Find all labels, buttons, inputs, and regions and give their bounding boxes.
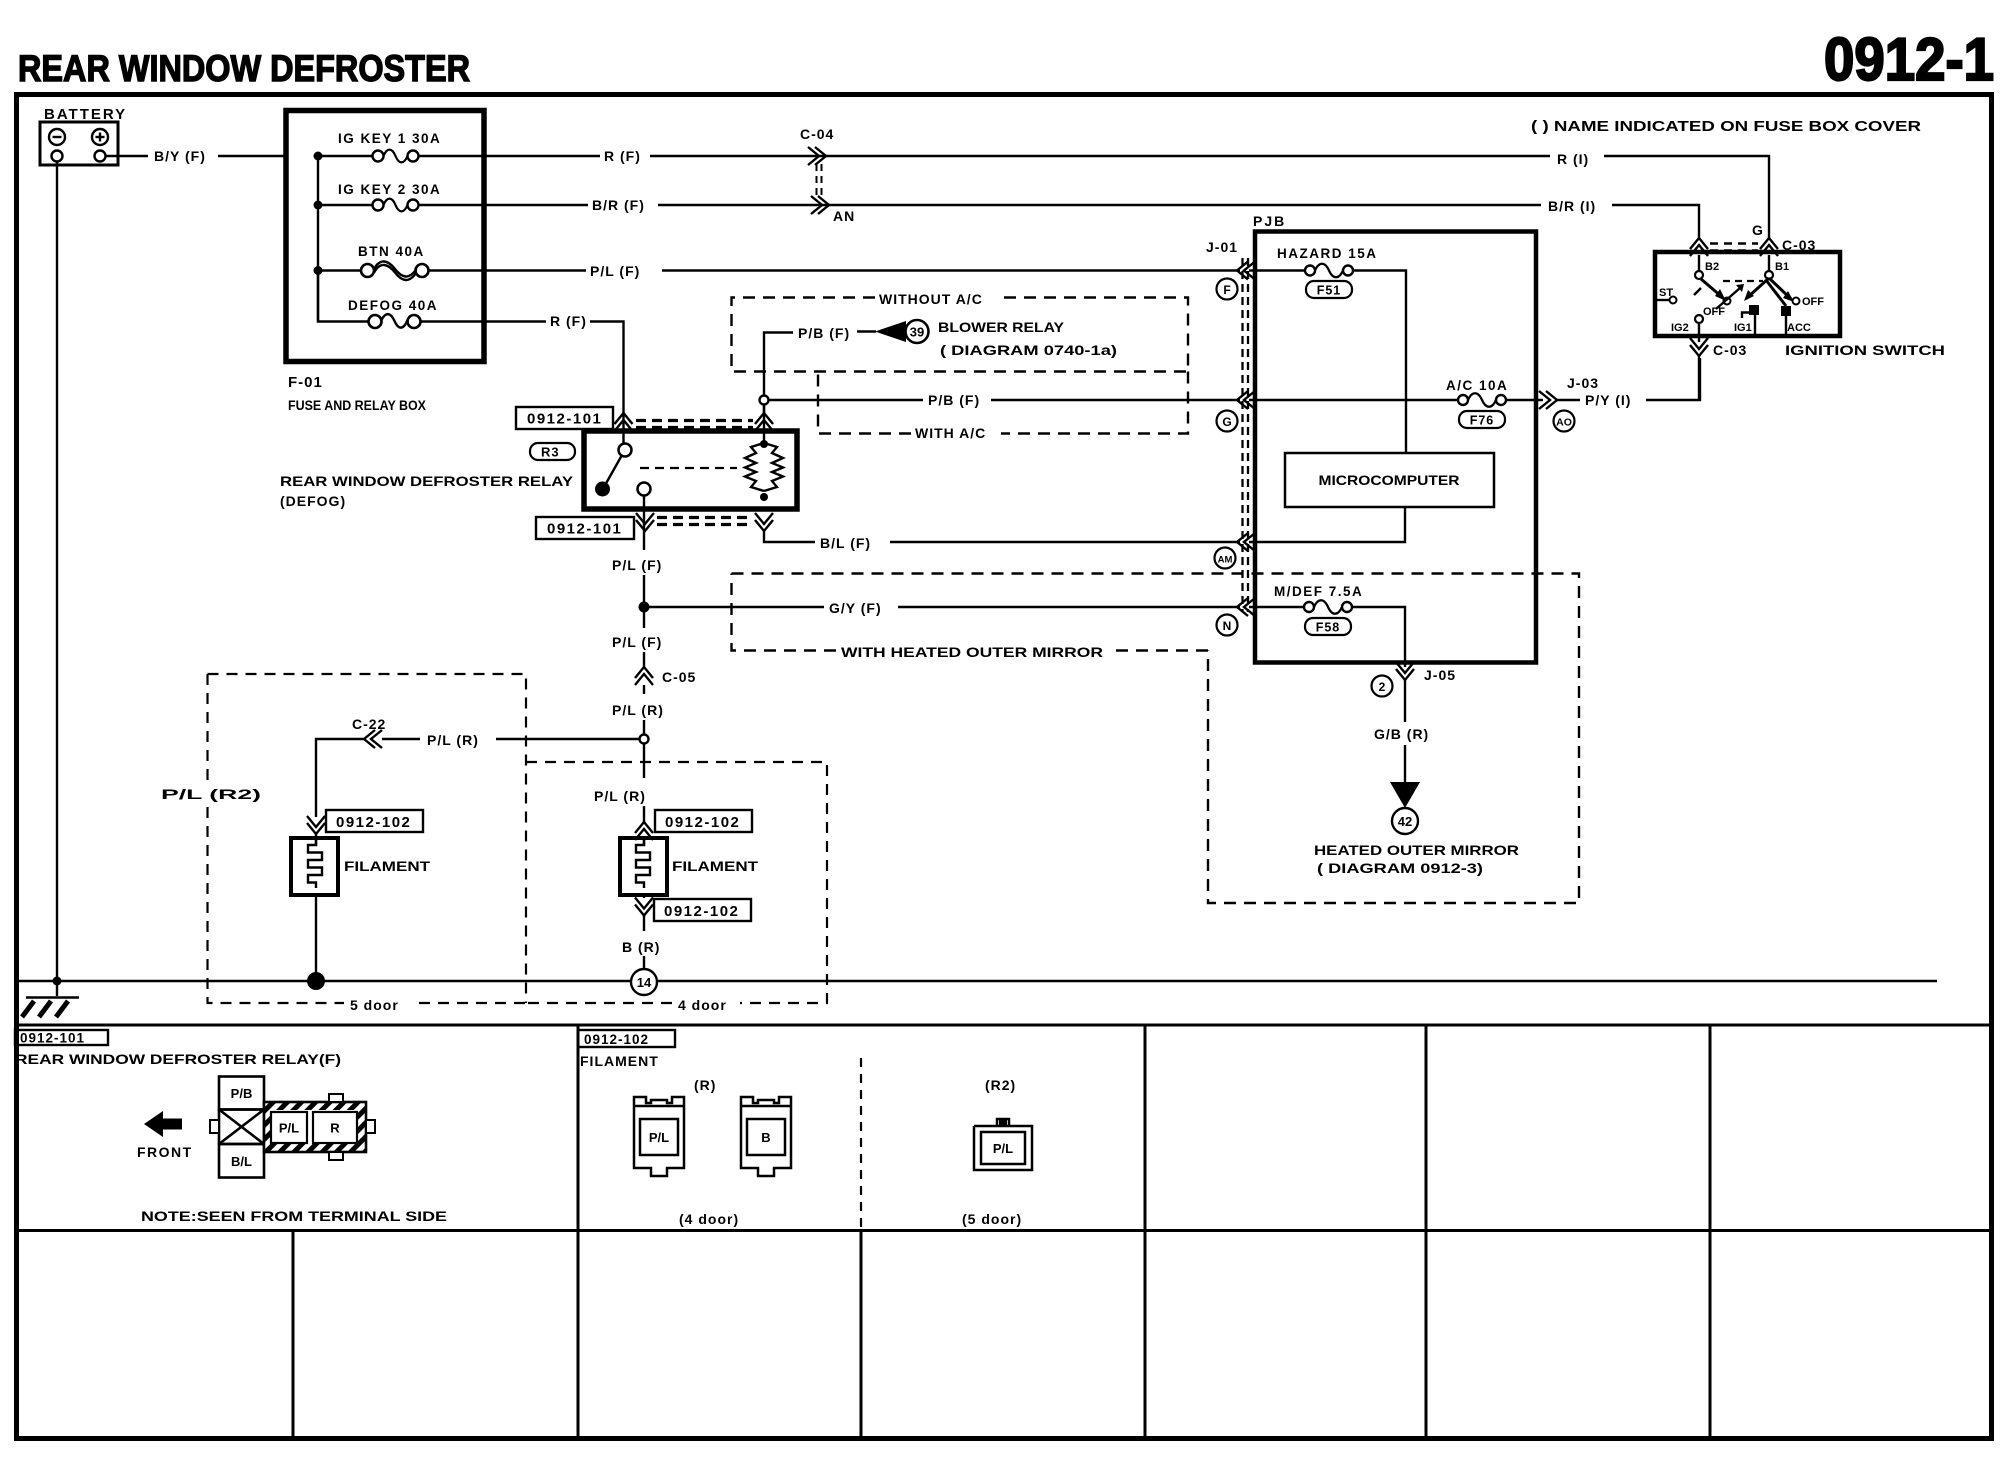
svg-text:NOTE:SEEN FROM TERMINAL SIDE: NOTE:SEEN FROM TERMINAL SIDE	[141, 1208, 447, 1224]
svg-text:P/L (F): P/L (F)	[612, 557, 662, 573]
svg-text:P/Y (I): P/Y (I)	[1585, 392, 1631, 408]
svg-text:FUSE AND RELAY BOX: FUSE AND RELAY BOX	[288, 397, 427, 413]
svg-text:FRONT: FRONT	[137, 1144, 193, 1160]
svg-text:DEFOG 40A: DEFOG 40A	[348, 298, 438, 313]
svg-text:IG KEY 2 30A: IG KEY 2 30A	[338, 182, 441, 197]
svg-text:P/L: P/L	[279, 1121, 299, 1136]
svg-text:B/Y (F): B/Y (F)	[154, 148, 206, 164]
svg-text:BLOWER RELAY: BLOWER RELAY	[938, 319, 1065, 335]
svg-text:IG2: IG2	[1671, 322, 1689, 334]
svg-text:P/L (R): P/L (R)	[612, 702, 664, 718]
svg-text:F-01: F-01	[288, 374, 323, 391]
svg-text:2: 2	[1379, 680, 1386, 694]
svg-text:OFF: OFF	[1802, 296, 1824, 308]
svg-text:0912-101: 0912-101	[527, 411, 602, 428]
svg-text:P/L (F): P/L (F)	[590, 263, 640, 279]
svg-text:42: 42	[1398, 814, 1412, 829]
svg-text:AN: AN	[833, 208, 855, 224]
svg-text:F76: F76	[1470, 414, 1495, 428]
svg-text:B/R (I): B/R (I)	[1548, 198, 1596, 214]
svg-text:WITHOUT A/C: WITHOUT A/C	[879, 291, 983, 307]
svg-text:C-22: C-22	[352, 716, 386, 732]
svg-text:0912-102: 0912-102	[665, 814, 740, 831]
svg-text:0912-101: 0912-101	[20, 1031, 85, 1046]
svg-text:HAZARD 15A: HAZARD 15A	[1277, 246, 1378, 261]
svg-text:IGNITION SWITCH: IGNITION SWITCH	[1785, 342, 1945, 358]
svg-text:G: G	[1752, 222, 1764, 238]
svg-text:(4 door): (4 door)	[679, 1211, 739, 1227]
svg-text:B2: B2	[1705, 261, 1719, 273]
svg-text:14: 14	[637, 975, 652, 990]
svg-text:M/DEF 7.5A: M/DEF 7.5A	[1274, 584, 1363, 599]
svg-text:P/L (R): P/L (R)	[427, 732, 479, 748]
svg-text:FILAMENT: FILAMENT	[344, 858, 431, 874]
svg-text:0912-1: 0912-1	[1824, 26, 1994, 93]
svg-text:B1: B1	[1775, 261, 1789, 273]
svg-text:39: 39	[910, 325, 924, 340]
svg-text:WITH A/C: WITH A/C	[915, 425, 986, 441]
svg-text:REAR WINDOW DEFROSTER RELAY(F): REAR WINDOW DEFROSTER RELAY(F)	[15, 1051, 341, 1067]
svg-text:F: F	[1223, 283, 1230, 297]
svg-text:F51: F51	[1317, 284, 1342, 298]
svg-text:FILAMENT: FILAMENT	[580, 1053, 659, 1069]
svg-text:C-03: C-03	[1713, 342, 1747, 358]
svg-text:P/L (R): P/L (R)	[594, 788, 646, 804]
svg-text:R (F): R (F)	[550, 313, 587, 329]
svg-text:J-01: J-01	[1206, 239, 1238, 255]
svg-text:BATTERY: BATTERY	[44, 106, 127, 123]
svg-text:A/C 10A: A/C 10A	[1446, 378, 1508, 393]
svg-text:0912-102: 0912-102	[664, 903, 739, 920]
svg-text:0912-101: 0912-101	[547, 521, 622, 538]
svg-text:G: G	[1222, 415, 1231, 429]
svg-text:HEATED OUTER MIRROR: HEATED OUTER MIRROR	[1314, 842, 1519, 858]
svg-text:OFF: OFF	[1703, 306, 1725, 318]
svg-text:MICROCOMPUTER: MICROCOMPUTER	[1319, 472, 1460, 488]
svg-text:(DEFOG): (DEFOG)	[280, 493, 346, 509]
svg-text:IG1: IG1	[1734, 322, 1752, 334]
svg-text:BTN 40A: BTN 40A	[358, 244, 425, 259]
svg-text:AO: AO	[1556, 417, 1572, 429]
svg-text:B: B	[761, 1130, 770, 1145]
svg-text:FILAMENT: FILAMENT	[672, 858, 759, 874]
svg-text:ACC: ACC	[1787, 322, 1811, 334]
svg-text:(R): (R)	[694, 1077, 716, 1093]
svg-text:B (R): B (R)	[622, 939, 660, 955]
svg-text:P/B (F): P/B (F)	[798, 325, 850, 341]
svg-text:B/L: B/L	[231, 1154, 252, 1169]
svg-text:5 door: 5 door	[350, 997, 399, 1013]
svg-text:( ) NAME INDICATED ON FUSE BOX: ( ) NAME INDICATED ON FUSE BOX COVER	[1531, 119, 1922, 135]
svg-text:PJB: PJB	[1253, 213, 1286, 229]
svg-text:R: R	[330, 1121, 340, 1136]
svg-text:R (F): R (F)	[604, 148, 641, 164]
svg-text:IG KEY 1 30A: IG KEY 1 30A	[338, 131, 441, 146]
svg-text:R3: R3	[541, 445, 560, 460]
svg-text:N: N	[1223, 619, 1232, 633]
svg-text:0912-102: 0912-102	[584, 1032, 649, 1047]
svg-text:( DIAGRAM 0740-1a): ( DIAGRAM 0740-1a)	[940, 342, 1117, 358]
svg-text:0912-102: 0912-102	[336, 814, 411, 831]
svg-text:C-04: C-04	[800, 126, 834, 142]
svg-text:(5 door): (5 door)	[962, 1211, 1022, 1227]
svg-text:C-05: C-05	[662, 669, 696, 685]
svg-text:4 door: 4 door	[678, 997, 727, 1013]
svg-text:AM: AM	[1218, 555, 1233, 566]
svg-text:( DIAGRAM 0912-3): ( DIAGRAM 0912-3)	[1317, 860, 1483, 876]
svg-text:P/L (R2): P/L (R2)	[161, 786, 261, 802]
svg-text:REAR WINDOW DEFROSTER RELAY: REAR WINDOW DEFROSTER RELAY	[280, 473, 574, 489]
svg-text:J-05: J-05	[1424, 667, 1456, 683]
svg-text:P/L: P/L	[993, 1141, 1013, 1156]
svg-text:R (I): R (I)	[1557, 151, 1589, 167]
svg-text:J-03: J-03	[1567, 375, 1599, 391]
svg-text:B/L (F): B/L (F)	[820, 535, 871, 551]
svg-text:REAR WINDOW DEFROSTER: REAR WINDOW DEFROSTER	[18, 48, 470, 89]
svg-text:B/R (F): B/R (F)	[592, 197, 645, 213]
svg-text:G/Y (F): G/Y (F)	[829, 600, 882, 616]
svg-text:P/L (F): P/L (F)	[612, 634, 662, 650]
svg-text:(R2): (R2)	[985, 1077, 1016, 1093]
svg-text:G/B (R): G/B (R)	[1374, 726, 1429, 742]
svg-text:P/L: P/L	[649, 1130, 669, 1145]
svg-text:P/B: P/B	[231, 1086, 253, 1101]
svg-text:P/B (F): P/B (F)	[928, 392, 980, 408]
svg-text:WITH HEATED OUTER MIRROR: WITH HEATED OUTER MIRROR	[841, 644, 1103, 660]
svg-text:F58: F58	[1316, 621, 1341, 635]
